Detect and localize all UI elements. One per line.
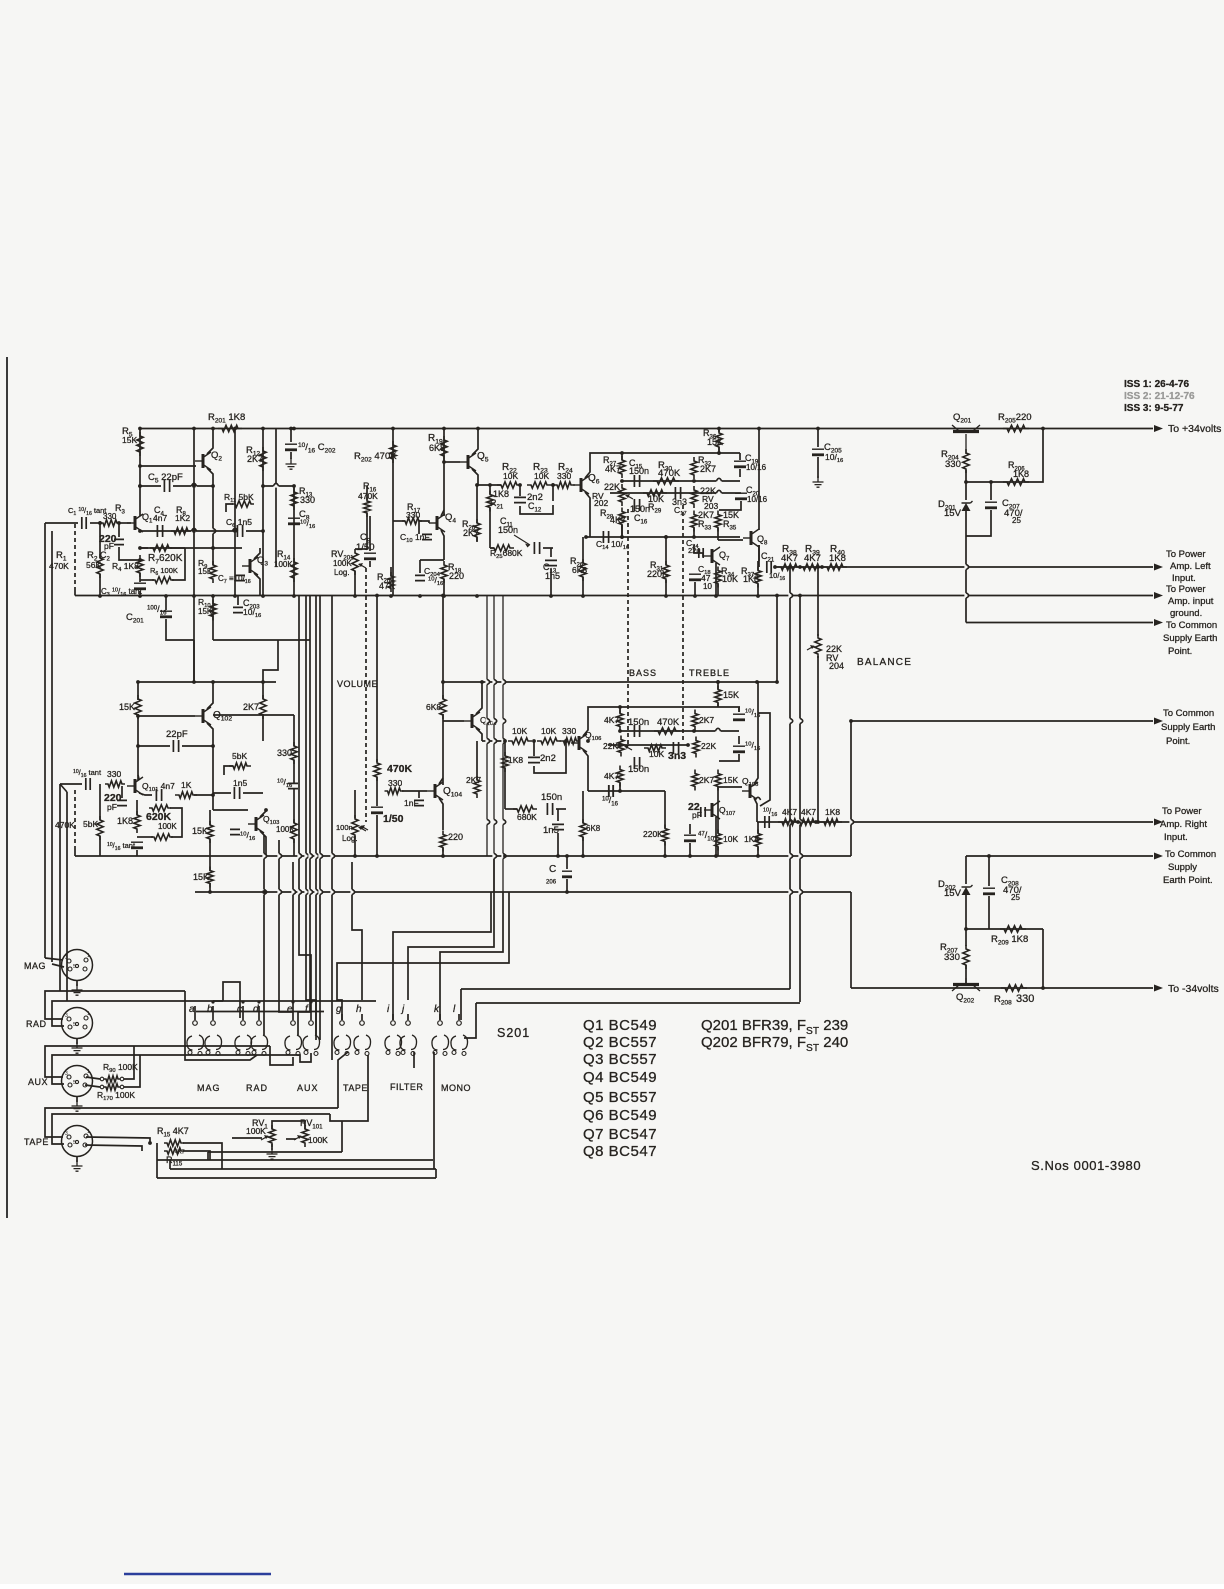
wire AUX pin to R170 (85, 1085, 100, 1087)
resistor 100K lower (151, 834, 173, 840)
wire 1n5 right (243, 792, 263, 794)
svg-text:1n5: 1n5 (543, 825, 559, 836)
junction x800 top (798, 594, 802, 598)
wire TAPE riser 1 (45, 1108, 338, 1137)
svg-text:330: 330 (388, 778, 402, 788)
svg-text:220K: 220K (643, 829, 663, 839)
junction dot 21 (261, 529, 265, 533)
wire tone box top lower (620, 706, 740, 708)
wire C9 bottom (369, 561, 371, 567)
zener diode D202 (962, 887, 971, 895)
wire 47 top (689, 824, 691, 834)
wire Q101 emitter row (139, 793, 152, 795)
wire C20 bottom (719, 501, 741, 510)
switch a top contact (193, 1021, 198, 1026)
svg-text:1K8: 1K8 (508, 755, 523, 765)
wire Q104 collector (439, 778, 443, 784)
wire 15K b (209, 856, 211, 871)
wiper RV202 (626, 495, 633, 499)
wire 1K8 tone top (757, 822, 759, 833)
capacitor C16 (634, 499, 639, 511)
wire switch top bar (213, 1000, 376, 1002)
svg-text:Q2 BC557: Q2 BC557 (583, 1034, 657, 1051)
junction dot 40 (664, 594, 668, 598)
hop x790 over lower bus (788, 889, 791, 894)
wire 2K7 bottom (262, 714, 264, 741)
junction R2 top (98, 521, 102, 525)
ground below C205 (813, 476, 824, 487)
wire 1K right (194, 794, 213, 796)
wire 15K tone lower2 col (717, 787, 719, 833)
socket RAD body (62, 1008, 93, 1039)
wire 1n5b top (557, 809, 559, 821)
wire C206 bottom (566, 879, 568, 892)
svg-text:1K8: 1K8 (117, 816, 133, 826)
hop x800 over earth2 (798, 718, 801, 723)
svg-text:22K: 22K (701, 741, 716, 751)
wire MAG pin link1 (45, 958, 63, 960)
svg-text:10/16: 10/16 (746, 463, 767, 472)
hop C6 row over R201 col (232, 529, 237, 532)
svg-text:To Power: To Power (1166, 549, 1206, 560)
wire Q105 base (443, 720, 464, 722)
capacitor C13 (545, 560, 557, 565)
wire 1K8 mid bottom (504, 768, 506, 809)
junction dot 1 (192, 427, 196, 431)
capacitor 1n5 lower (234, 787, 239, 799)
resistor R11 56K (232, 501, 254, 507)
hop loop over collector (755, 798, 760, 801)
wire R21 col (489, 485, 491, 494)
svg-text:22pF: 22pF (166, 729, 188, 740)
junction dot 33 (442, 594, 446, 598)
svg-text:To Power: To Power (1166, 584, 1206, 595)
wire AUX link 1 (124, 1046, 134, 1079)
potentiometer RV204 (815, 634, 821, 658)
hop riser d over ground (262, 853, 265, 858)
junction dot 77 (375, 854, 379, 858)
arrowhead C11 (525, 544, 530, 548)
junction dot 22 (192, 594, 196, 598)
switch e hook right (296, 1035, 302, 1050)
junction dot 13 (138, 546, 142, 550)
resistor R31 (663, 561, 669, 583)
resistor R6 100K (152, 577, 174, 583)
wire socket AUX gnd stub (76, 1097, 78, 1103)
junction dot 84 (714, 854, 718, 858)
wire RV1 gnd (271, 1144, 273, 1150)
svg-text:ISS 3: 9-5-77: ISS 3: 9-5-77 (1124, 403, 1184, 414)
svg-text:d: d (253, 1004, 259, 1015)
svg-text:10K: 10K (722, 574, 738, 584)
resistor R3 (100, 520, 120, 526)
wire Q201 emitter down (965, 536, 967, 623)
wire RV pots feed (232, 1137, 262, 1139)
junction dot 38 (714, 594, 718, 598)
junction dot 3 (261, 427, 265, 431)
svg-text:1: 1 (87, 953, 90, 959)
svg-text:100K: 100K (158, 822, 177, 831)
switch h hook left (354, 1036, 360, 1050)
svg-text:10K: 10K (723, 834, 738, 844)
resistor R13 (291, 488, 297, 510)
wire C202 gnd stub (290, 452, 292, 459)
wire Q105 emitter (476, 728, 482, 741)
wire switch d stem (258, 1006, 260, 1020)
svg-text:1K: 1K (181, 780, 192, 790)
resistor 620K lower (149, 805, 171, 811)
hop riser x332 ground (330, 853, 333, 858)
svg-text:25: 25 (1012, 516, 1021, 525)
wire AUX row 2 long (140, 1053, 311, 1062)
potentiometer 22K treble lower (693, 737, 699, 758)
switch g top contact (340, 1021, 345, 1026)
junction dot 61 (136, 744, 140, 748)
svg-text:470K: 470K (49, 561, 69, 571)
arrow to power amp left input (1154, 564, 1163, 571)
svg-text:To +34volts: To +34volts (1168, 423, 1221, 435)
svg-text:10: 10 (703, 582, 712, 591)
svg-text:330: 330 (945, 459, 961, 470)
svg-text:BALANCE: BALANCE (857, 657, 912, 668)
wire Q106 emitter (583, 750, 588, 791)
junction C205 rail (816, 427, 820, 431)
resistor R201 (218, 425, 242, 431)
wire AUX row long (134, 1045, 270, 1047)
wire Q102 base (138, 715, 195, 717)
switch i hook right (396, 1035, 402, 1050)
wire bass pot row lower (608, 744, 688, 746)
resistor R29 (643, 490, 667, 496)
wire AUX out right (270, 1046, 293, 1065)
switch pole d stem (257, 1000, 260, 1003)
resistor 470K lower (374, 759, 380, 781)
junction dot 2 (233, 427, 237, 431)
resistor R90 (104, 1076, 120, 1082)
wire bottom rect 2 (157, 1159, 433, 1161)
svg-text:220K: 220K (647, 569, 668, 579)
svg-text:15V: 15V (944, 508, 962, 519)
wire 6K8b top (582, 791, 584, 823)
wire 1n5 row (213, 792, 231, 794)
junction dot 24 (233, 594, 237, 598)
wire switch line k (461, 988, 790, 990)
resistor 6K8 lower (440, 695, 446, 719)
svg-text:1K8: 1K8 (829, 553, 846, 564)
junction dot 37 (693, 594, 697, 598)
junction R39 left (798, 565, 802, 569)
svg-text:C: C (549, 864, 556, 875)
resistor R25 680K (490, 545, 514, 551)
svg-text:Q6 BC549: Q6 BC549 (583, 1107, 657, 1124)
hop x851 over right input (849, 819, 852, 824)
wire 1K8 top (136, 800, 138, 815)
junction dot 20 (233, 529, 237, 533)
wire D202 to node (965, 895, 967, 946)
wire input lead (45, 522, 78, 524)
junction rail b feed (441, 594, 445, 598)
junction dot 55 (211, 680, 215, 684)
resistor R7 620K (150, 545, 172, 551)
svg-text:a: a (189, 1004, 195, 1015)
wire R7 right (170, 547, 185, 549)
hop x800 over lower bus (798, 889, 801, 894)
switch e hook left (285, 1036, 291, 1050)
resistor R20 (474, 519, 480, 541)
svg-text:Input.: Input. (1172, 573, 1196, 584)
junction 470K bus (375, 594, 379, 598)
wire riser x503 up (502, 596, 504, 893)
svg-text:5: 5 (73, 964, 76, 970)
svg-text:100K: 100K (274, 560, 293, 569)
wire RV101 feed (286, 1138, 296, 1140)
socket MAG pins (67, 959, 71, 963)
resistor 1K8 out (820, 819, 842, 825)
capacitor 4n7 lower (156, 789, 161, 801)
wire TAPE to g (338, 1052, 348, 1108)
wire Q108 base link (718, 786, 742, 788)
svg-text:R209 1K8: R209 1K8 (991, 934, 1028, 946)
resistor 2K7 lower (260, 695, 266, 719)
wire input lower (60, 783, 82, 785)
svg-text:10K: 10K (649, 749, 664, 759)
switch e top contact (291, 1021, 296, 1026)
junction rail R206 (1041, 427, 1045, 431)
svg-text:Q1 BC549: Q1 BC549 (583, 1017, 657, 1034)
wire Q1 R5 node (140, 465, 196, 467)
wire Q1 emitter row (140, 530, 196, 532)
junction R208 right (1041, 986, 1045, 990)
transistor Q2 (202, 454, 205, 468)
wire box right lower a (738, 708, 740, 712)
wire R10 col (212, 596, 214, 641)
wire 15K a bottom (209, 839, 211, 856)
transistor Q103 (255, 817, 258, 831)
potentiometer RV203 22K (691, 486, 697, 508)
junction x790 top (788, 565, 792, 569)
wire Q107 emitter (715, 817, 717, 856)
switch pole c stem (241, 1000, 244, 1003)
resistor R207 (963, 945, 969, 969)
svg-text:470K: 470K (657, 717, 680, 728)
svg-text:1K8: 1K8 (1013, 469, 1029, 479)
switch d hook left (251, 1036, 257, 1050)
arrow to power amp input ground (1154, 592, 1163, 599)
junction dot 82 (663, 854, 667, 858)
wire C6 right (246, 530, 263, 532)
wire mono drop (413, 1052, 415, 1068)
switch k hook left (432, 1036, 438, 1050)
svg-text:4K7: 4K7 (782, 807, 797, 817)
wire Q108 emitter (754, 798, 757, 822)
svg-text:2n2: 2n2 (540, 753, 556, 764)
wire C5 right (173, 485, 213, 487)
wire C14 line (586, 536, 740, 538)
resistor R22 (497, 482, 521, 488)
svg-text:AUX: AUX (297, 1083, 319, 1093)
junction dot 57 (441, 680, 445, 684)
resistor 1K lower (175, 792, 197, 798)
junction dot 27 (138, 594, 142, 598)
junction dot 16 (117, 521, 121, 525)
resistor R16 (364, 497, 370, 517)
svg-text:Q5 BC557: Q5 BC557 (583, 1089, 657, 1106)
wire Q1 collector (139, 429, 141, 517)
junction dot 36 (581, 594, 585, 598)
svg-text:470K: 470K (658, 468, 681, 479)
capacitor 10/16 lower mid (230, 829, 240, 834)
switch a hook right (198, 1035, 204, 1050)
resistor 220 lower (440, 831, 446, 852)
wire tone box top (622, 452, 740, 454)
wire treble gang dashed (682, 505, 684, 742)
wire AUX riser 1 (45, 1046, 134, 1077)
junction lower rail R36L (716, 680, 720, 684)
svg-text:1: 1 (87, 1069, 90, 1075)
wire riser bundle x332 (331, 596, 333, 1061)
resistor R17 (402, 518, 422, 524)
arrow to -34 volts (1154, 985, 1163, 992)
svg-text:To -34volts: To -34volts (1168, 983, 1219, 995)
resistor R30 (653, 478, 679, 484)
svg-text:330: 330 (562, 726, 576, 736)
wire Q4 base (419, 521, 429, 523)
ground socket RAD (72, 1042, 83, 1053)
junction R40 left (820, 565, 824, 569)
wire R25 left (490, 547, 494, 549)
svg-text:pF: pF (107, 802, 117, 812)
wire balance top (817, 567, 819, 636)
wire riser g1 (315, 596, 317, 1041)
capacitor 150n lower (547, 803, 552, 815)
switch i top contact (391, 1021, 396, 1026)
wire socket TAPE gnd stub (76, 1157, 78, 1163)
wire C205 bottom (817, 457, 819, 478)
wire Q2 collector (207, 429, 213, 455)
wire RAD riser 2 (52, 1001, 223, 1026)
hop riser x310 bus (308, 889, 311, 894)
junction dot 68 (692, 729, 696, 733)
resistor R208 (1001, 985, 1027, 991)
capacitor C9 lower 1/50 (371, 806, 383, 808)
resistor R12 (260, 447, 266, 471)
wire Q102 collector (207, 682, 213, 709)
wire switch g stem (341, 1014, 343, 1020)
wire switch second bar (196, 1011, 324, 1013)
wire -34V line (851, 987, 1153, 989)
capacitor 10/16 d tone (733, 745, 745, 747)
wire 6K8 bottom (442, 714, 444, 785)
switch h top contact (360, 1021, 365, 1026)
junction dot 42 (475, 483, 479, 487)
ground socket MAG (72, 984, 83, 995)
wire R105 bottom (137, 714, 139, 780)
wire C12 top (519, 485, 521, 496)
svg-text:Amp. Left: Amp. Left (1170, 561, 1211, 572)
wire input riser a (44, 523, 46, 958)
switch h hook right (365, 1035, 371, 1050)
wire R101 bottom (74, 850, 76, 856)
svg-text:15K: 15K (723, 690, 739, 700)
junction dot 7 (476, 427, 480, 431)
wire bass pot row (610, 492, 741, 494)
capacitor C203 (233, 607, 243, 612)
wire bottom v436 (435, 1169, 437, 1178)
svg-text:R201 1K8: R201 1K8 (208, 412, 245, 424)
capacitor C15 (634, 475, 639, 487)
resistor R27 (619, 456, 625, 478)
wire C201 top (165, 596, 167, 611)
wire riser x494 up (493, 596, 495, 893)
wire Q3 collector (254, 548, 260, 559)
junction dot 87 (565, 890, 569, 894)
wire main ground bus (75, 595, 1153, 597)
resistor R202 (390, 441, 396, 463)
wire Q6 collector (585, 453, 622, 478)
wire Q105 collector (476, 682, 482, 714)
svg-text:MAG: MAG (197, 1083, 221, 1093)
hop riser x310 ground (308, 853, 311, 858)
junction dot 75 (532, 739, 536, 743)
resistor R4 (137, 555, 143, 577)
hop riser x320 bus (318, 889, 321, 894)
resistor R35 (715, 511, 721, 532)
svg-text:g: g (336, 1004, 342, 1015)
wire R9 top (212, 548, 214, 565)
junction dot 65 (264, 808, 268, 812)
wire riser bundle x320 (319, 596, 321, 1041)
resistor 4K7 out a (778, 819, 800, 825)
wire 100K r bottom (293, 839, 295, 856)
resistor R19 (441, 436, 447, 460)
wire lower input stub (60, 784, 67, 792)
hop x503 rail (501, 679, 504, 684)
junction dot 41 (442, 460, 446, 464)
wire C18 bottom (694, 582, 696, 596)
hop x487 right input (485, 819, 488, 824)
wire R27 branch (621, 453, 623, 460)
svg-text:Amp. input: Amp. input (1168, 596, 1214, 607)
wire R35 bottom (717, 528, 719, 540)
svg-text:b: b (207, 1004, 213, 1015)
svg-text:1/50: 1/50 (356, 542, 375, 553)
wire C208 branch (988, 856, 990, 886)
svg-text:4K7: 4K7 (604, 771, 619, 781)
junction C207 top (989, 480, 993, 484)
junction dot 30 (353, 594, 357, 598)
junction dot 34 (475, 594, 479, 598)
wire switch c stem (242, 1006, 244, 1020)
wire balance bottom (817, 656, 819, 822)
wire C11 right (543, 547, 553, 549)
wire riser g2 (337, 892, 509, 1020)
svg-text:To Power: To Power (1162, 806, 1202, 817)
wire tone mid join lower (619, 783, 621, 791)
junction dot 11 (138, 484, 142, 488)
capacitor C14 (603, 531, 608, 543)
wire pot lower bottom (354, 836, 356, 856)
capacitor C201 (160, 610, 172, 612)
hop x494 base row (492, 738, 495, 743)
wire C203 top (237, 596, 239, 606)
capacitor 22pF lower (173, 740, 178, 752)
junction dot 29 (98, 594, 102, 598)
wire R1 dashed (74, 524, 76, 590)
wire 1n5b bottom (557, 833, 559, 856)
hop C5 row over x194 (191, 484, 196, 487)
svg-text:6K8: 6K8 (429, 443, 445, 453)
svg-text:FILTER: FILTER (390, 1082, 423, 1092)
